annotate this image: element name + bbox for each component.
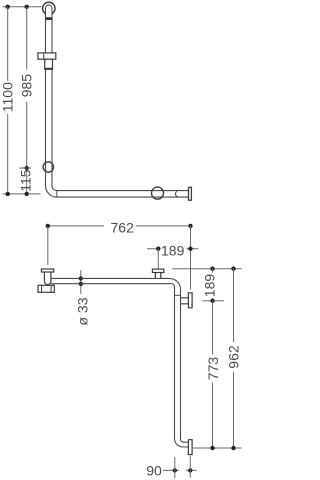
dim dot 762 right: [188, 224, 192, 228]
dim dot 762 left: [46, 224, 50, 228]
extension line pin2 (x=157.8): [157, 249, 159, 269]
dimension line 962 (x=233): [233, 269, 235, 448]
dimension line 189 vertical (x=212): [212, 269, 214, 301]
dimension line 762 (y=225.4): [48, 225, 191, 227]
tick at pin axis (y=300.3): [203, 300, 225, 302]
holder cone bottom edge: [45, 68, 53, 70]
svg-text:1100: 1100: [0, 82, 16, 112]
dimension line 985 (x=26.2): [26, 7, 28, 194]
dim dot 962 bottom: [231, 446, 235, 450]
dim extension line top (y=6.3): [3, 6, 42, 8]
dim dot top (985 ref): [25, 5, 29, 9]
slide ring on vertical tube: [43, 162, 53, 172]
svg-text:189: 189: [161, 242, 185, 258]
side mounting disc: [188, 293, 192, 308]
pin2 stem: [155, 273, 160, 279]
svg-text:985: 985: [19, 74, 35, 98]
shower head holder block: [38, 53, 56, 59]
extension line bottom (y=447.5): [193, 447, 242, 449]
extension line wall plane (x=190): [190, 226, 192, 290]
svg-text:115: 115: [17, 169, 33, 192]
tube end seam arc: [175, 191, 177, 197]
tube top cap inside ring: [46, 5, 53, 20]
bottom mounting disc: [188, 440, 192, 455]
svg-text:189: 189: [202, 274, 218, 298]
side mounting pin stem: [181, 298, 189, 304]
svg-text:773: 773: [205, 357, 221, 381]
dim dot 189h left: [156, 247, 160, 251]
extension line top plane (y=268.2): [172, 268, 241, 270]
dim dot 962 top: [231, 267, 235, 271]
dim dot 90 left: [173, 468, 177, 472]
dimension line 90 (y=469.9): [163, 469, 197, 471]
pin1 wall plate: [38, 285, 54, 292]
dim dot ø33 bottom: [79, 282, 83, 286]
pin1 top bar: [41, 269, 53, 272]
vertical rail tube: [46, 12, 189, 197]
dimension line 1100 (x=7.2): [7, 7, 9, 194]
tick below top ring: [46, 17, 53, 19]
svg-text:762: 762: [111, 220, 135, 236]
svg-text:ø 33: ø 33: [74, 297, 90, 325]
extension line from 762 left dot to pin1: [47, 226, 49, 265]
plate divider left: [41, 285, 43, 292]
extension line wall (x=189.8): [189, 456, 191, 478]
horizontal tube (plan): [51, 278, 181, 438]
dim extension line bottom (y=193.4 rail axis): [3, 193, 41, 195]
corner seam (plan): [175, 294, 181, 296]
dimension line 773 (x=212): [212, 301, 214, 448]
dim dot 773 bottom: [210, 446, 214, 450]
dim dot ø33 top: [79, 276, 83, 280]
svg-text:962: 962: [226, 345, 242, 369]
holder cone: [45, 59, 53, 69]
bottom bend of plan tube: [175, 439, 189, 448]
bend seam: [56, 191, 58, 198]
dim dot 773 top: [210, 299, 214, 303]
holder clamp divider: [43, 53, 45, 59]
top ring of rail: [43, 2, 55, 14]
dim dot 90 right: [188, 468, 192, 472]
pin2 top bar: [152, 269, 163, 272]
dim dot 189v top: [210, 267, 214, 271]
dim dot bottom (115 ref): [25, 192, 29, 196]
svg-text:90: 90: [146, 462, 162, 478]
wall flange (top view right end): [189, 187, 192, 200]
dim dot bottom-left: [6, 192, 10, 196]
dimension line 189 horizontal (y=248.2): [147, 248, 198, 250]
plate divider right: [50, 285, 52, 292]
dim dot top-left (1100 ref): [6, 5, 10, 9]
pin1 stem: [44, 272, 51, 285]
slide ring on horizontal tube: [152, 187, 164, 199]
ø33 gauge line (x=80.3): [80, 270, 82, 294]
dim dot mid (985/115 boundary): [25, 166, 29, 170]
dim dot 189h right: [188, 247, 192, 251]
extension line tube edge (x=174.3): [174, 457, 176, 478]
tick at 985/115 boundary: [20, 167, 31, 169]
